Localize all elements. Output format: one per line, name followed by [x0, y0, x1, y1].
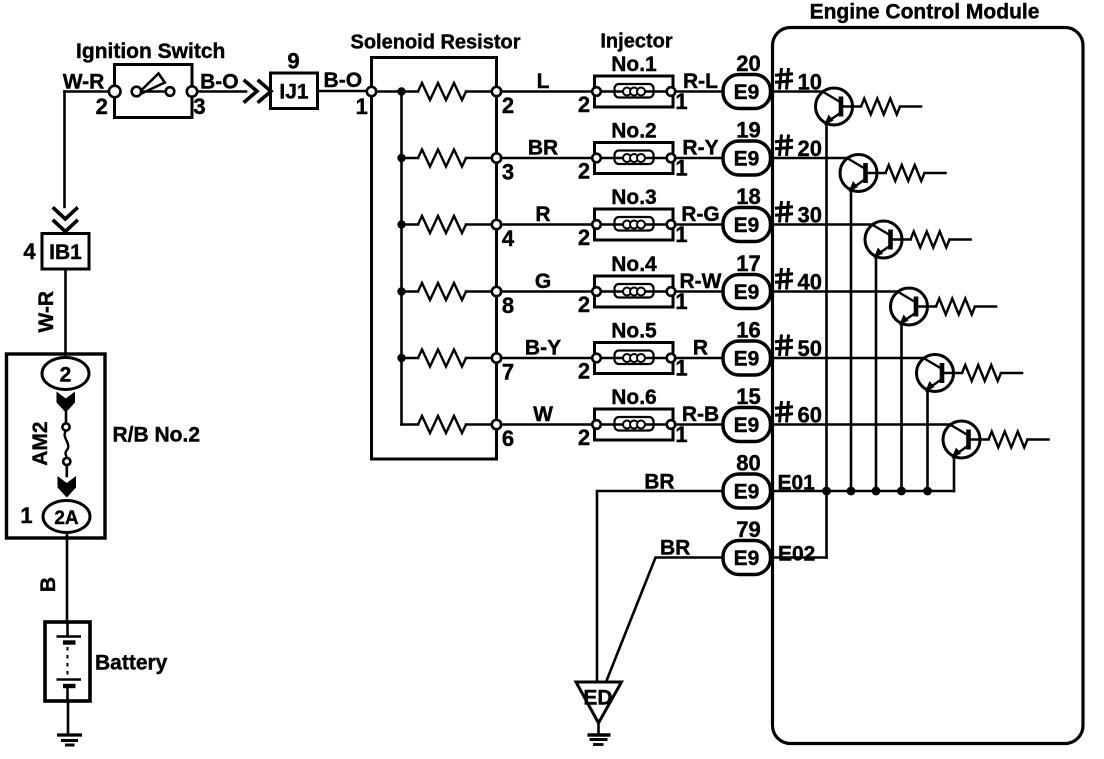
wire R-W injector to E9 — [675, 290, 723, 293]
transistor Q4 collector resistor — [916, 305, 936, 308]
injector pin 1 — [667, 354, 676, 363]
wire E9 row to transistor Q5 base — [770, 357, 924, 360]
svg-text:7: 7 — [502, 360, 514, 385]
wire E9 row to transistor Q4 base — [770, 290, 898, 293]
injector pin 2 — [592, 87, 601, 96]
fuse AM2 — [65, 413, 68, 424]
wire W solenoid to injector No.6 — [501, 423, 592, 426]
svg-text:R: R — [535, 203, 550, 226]
svg-text:R-G: R-G — [681, 203, 720, 226]
connector pin 2 oval — [42, 358, 89, 390]
wire R solenoid to injector No.3 — [501, 223, 592, 226]
svg-text:Ignition Switch: Ignition Switch — [76, 40, 225, 63]
switch terminal pin 2 — [109, 86, 121, 98]
wire R-L injector to E9 — [675, 90, 723, 93]
bus junction node row 3 — [397, 220, 405, 228]
injector pin 1 — [667, 154, 676, 163]
wire B-O IJ1 to solenoid resistor pin 1 — [318, 90, 368, 93]
svg-text:BR: BR — [528, 137, 558, 160]
svg-text:R: R — [693, 337, 708, 360]
solenoid resistor row 6 wire — [402, 423, 419, 426]
junction connector IB1 — [42, 234, 89, 270]
svg-text:No.1: No.1 — [611, 53, 657, 76]
wire E9 row to transistor Q6 base — [770, 423, 950, 426]
junction connector IJ1 — [271, 73, 318, 109]
svg-text:No.4: No.4 — [611, 253, 657, 276]
solenoid resistor pin 1 — [367, 87, 376, 96]
wire E9 row to transistor Q2 base — [770, 157, 847, 160]
svg-text:Engine Control Module: Engine Control Module — [810, 1, 1040, 24]
solenoid resistor row 4 wire — [402, 290, 419, 293]
wire E9 row to transistor Q1 base — [770, 90, 823, 93]
wire battery to ground — [67, 701, 70, 734]
svg-text:B: B — [37, 577, 60, 592]
svg-text:E9: E9 — [734, 348, 760, 371]
ignition switch body — [115, 65, 193, 118]
bus wire — [400, 92, 403, 425]
svg-text:60: 60 — [798, 403, 822, 428]
svg-text:W-R: W-R — [63, 71, 105, 94]
wire BR E9-80 to ground — [597, 491, 723, 681]
transistor Q3 collector resistor — [891, 238, 911, 241]
injector coil — [623, 421, 631, 429]
svg-text:E02: E02 — [778, 543, 815, 566]
ground ED triangle — [576, 682, 622, 723]
svg-text:20: 20 — [798, 136, 822, 161]
solenoid resistor pin 8 — [492, 287, 501, 296]
thick arrow up-stream — [57, 392, 76, 413]
transistor Q5 — [917, 355, 954, 392]
svg-text:E9: E9 — [734, 81, 760, 104]
wire between contacts — [141, 90, 166, 93]
injector coil — [623, 288, 631, 296]
svg-text:No.2: No.2 — [611, 120, 657, 143]
svg-text:4: 4 — [23, 239, 36, 264]
svg-text:B-Y: B-Y — [525, 337, 561, 360]
connector E9 pin 19 — [723, 141, 771, 175]
svg-text:2: 2 — [578, 359, 590, 384]
svg-text:E9: E9 — [734, 148, 760, 171]
connector E9 pin 20 — [723, 75, 771, 109]
svg-text:E9: E9 — [734, 214, 760, 237]
switch inner contact right — [166, 87, 175, 96]
wire R-B injector to E9 — [675, 423, 723, 426]
ground — [597, 723, 600, 734]
bus junction node row 4 — [397, 287, 405, 295]
wire R-Y injector to E9 — [675, 157, 723, 160]
svg-text:E9: E9 — [734, 414, 760, 437]
svg-text:50: 50 — [798, 336, 822, 361]
svg-text:1: 1 — [20, 503, 32, 528]
svg-text:40: 40 — [798, 270, 822, 295]
svg-text:8: 8 — [502, 293, 514, 318]
E01 bus junction node — [847, 487, 856, 496]
svg-text:R/B No.2: R/B No.2 — [113, 424, 201, 447]
E01 bus junction node — [872, 487, 881, 496]
injector pin 1 — [667, 420, 676, 429]
connector E9 pin 16 — [723, 341, 771, 375]
injector pin 1 — [667, 287, 676, 296]
wire E9 row to transistor Q3 base — [770, 223, 872, 226]
svg-text:ED: ED — [583, 687, 612, 710]
svg-text:Solenoid Resistor: Solenoid Resistor — [350, 32, 520, 54]
label #30 — [775, 201, 793, 223]
wire B-Y solenoid to injector No.5 — [501, 357, 592, 360]
transistor Q3 — [865, 221, 902, 258]
solenoid resistor row 1 wire — [372, 90, 419, 93]
svg-text:2: 2 — [96, 94, 108, 119]
bus junction node row 5 — [397, 354, 405, 362]
wire BR solenoid to injector No.2 — [501, 157, 592, 160]
svg-text:W-R: W-R — [35, 291, 58, 333]
svg-text:IB1: IB1 — [49, 241, 82, 264]
svg-text:17: 17 — [736, 251, 760, 276]
label #20 — [775, 135, 793, 157]
svg-text:BR: BR — [644, 471, 674, 494]
svg-text:10: 10 — [798, 70, 822, 95]
transistor Q6 collector resistor — [969, 438, 989, 441]
svg-text:30: 30 — [798, 203, 822, 228]
svg-text:2: 2 — [578, 92, 590, 117]
svg-text:R-W: R-W — [680, 270, 722, 293]
svg-text:18: 18 — [736, 184, 760, 209]
ground — [57, 733, 82, 736]
connector arrows vv — [54, 209, 77, 220]
solenoid resistor pin 2 — [492, 87, 501, 96]
svg-text:3: 3 — [193, 94, 205, 119]
wire Q1 emitter to E01 bus — [825, 123, 828, 492]
svg-text:2A: 2A — [54, 508, 79, 529]
connector E9 pin 15 — [723, 408, 771, 442]
solenoid resistor box — [372, 58, 497, 460]
label #10 — [775, 68, 793, 90]
connector E9 pin 79 — [723, 541, 771, 575]
resistor row 6 — [418, 416, 466, 433]
svg-text:AM2: AM2 — [29, 421, 52, 465]
injector coil — [623, 354, 631, 362]
svg-text:BR: BR — [660, 537, 690, 560]
connector pin 2A oval — [43, 501, 90, 533]
wire R injector to E9 — [675, 357, 723, 360]
wire W-R from node to switch pin 2 — [65, 90, 110, 93]
relay block R/B No.2 box — [7, 354, 106, 538]
svg-text:W: W — [533, 403, 553, 426]
thick arrow down-stream — [58, 476, 77, 498]
E01 bus junction node — [897, 487, 906, 496]
svg-text:L: L — [537, 70, 550, 93]
resistor row 1 — [418, 83, 466, 100]
solenoid resistor pin 7 — [492, 353, 501, 362]
solenoid resistor pin 3 — [492, 153, 501, 162]
wire W-R vertical drop — [63, 92, 66, 208]
solenoid resistor row 5 wire — [402, 357, 419, 360]
transistor Q2 collector resistor — [866, 172, 886, 175]
svg-text:79: 79 — [736, 517, 760, 542]
injector pin 1 — [667, 220, 676, 229]
transistor Q1 — [816, 88, 853, 125]
wire G solenoid to injector No.4 — [501, 290, 592, 293]
svg-text:2: 2 — [578, 425, 590, 450]
connector E9 pin 80 — [723, 474, 771, 508]
svg-text:6: 6 — [502, 426, 514, 451]
wire Q3 emitter to E01 bus — [875, 256, 878, 492]
transistor Q6 — [943, 421, 980, 458]
svg-text:4: 4 — [502, 226, 515, 251]
injector pin 2 — [592, 154, 601, 163]
svg-text:1: 1 — [356, 94, 368, 119]
wire L solenoid to injector No.1 — [501, 90, 592, 93]
svg-text:2: 2 — [578, 225, 590, 250]
svg-text:2: 2 — [578, 159, 590, 184]
svg-text:R-B: R-B — [682, 403, 719, 426]
transistor Q5 collector resistor — [942, 372, 962, 375]
svg-text:R-Y: R-Y — [682, 137, 718, 160]
transistor Q4 — [891, 288, 928, 325]
switch terminal pin 3 — [187, 86, 197, 96]
resistor row 3 — [418, 216, 466, 233]
E01 bus junction node — [822, 487, 831, 496]
wire E02 row — [772, 556, 827, 559]
wire Q2 emitter to E01 bus — [850, 189, 853, 491]
svg-text:G: G — [535, 270, 551, 293]
svg-text:No.6: No.6 — [611, 386, 657, 409]
svg-text:2: 2 — [578, 292, 590, 317]
E01 bus wire — [772, 490, 954, 493]
wire B R/B to battery — [66, 533, 69, 623]
svg-text:20: 20 — [736, 51, 760, 76]
svg-text:E9: E9 — [734, 281, 760, 304]
svg-text:80: 80 — [736, 451, 760, 476]
wire Q4 emitter to E01 bus — [900, 323, 903, 492]
svg-text:Battery: Battery — [95, 652, 168, 675]
injector coil — [623, 154, 631, 162]
injector pin 2 — [592, 420, 601, 429]
engine control module box — [773, 28, 1084, 744]
solenoid resistor row 2 wire — [402, 157, 419, 160]
wire W-R IB1 to R/B No.2 — [64, 269, 67, 358]
label #60 — [775, 401, 793, 423]
svg-text:E01: E01 — [778, 472, 816, 495]
connector arrows >> — [245, 81, 257, 102]
wire E02 riser to E01 bus — [825, 491, 828, 558]
svg-text:15: 15 — [736, 384, 760, 409]
label #50 — [775, 335, 793, 357]
svg-text:B-O: B-O — [324, 69, 363, 92]
connector E9 pin 17 — [723, 275, 771, 309]
svg-text:No.3: No.3 — [611, 186, 657, 209]
svg-text:2: 2 — [502, 93, 514, 118]
label #40 — [775, 268, 793, 290]
svg-text:E9: E9 — [734, 481, 760, 504]
transistor Q2 — [840, 155, 877, 192]
svg-text:E9: E9 — [734, 547, 760, 570]
resistor row 4 — [418, 283, 466, 300]
svg-text:9: 9 — [287, 49, 299, 74]
svg-text:IJ1: IJ1 — [279, 81, 309, 104]
resistor row 5 — [418, 350, 466, 367]
battery — [45, 622, 90, 701]
injector coil — [623, 88, 631, 96]
injector coil — [623, 221, 631, 229]
wire R-G injector to E9 — [675, 223, 723, 226]
connector E9 pin 18 — [723, 208, 771, 242]
injector pin 2 — [592, 354, 601, 363]
solenoid resistor row 3 wire — [402, 223, 419, 226]
svg-text:Injector: Injector — [600, 31, 672, 53]
transistor Q1 collector resistor — [841, 105, 861, 108]
switch lever — [139, 74, 165, 94]
svg-text:R-L: R-L — [683, 70, 718, 93]
wire BR E9-79 to ground — [606, 558, 723, 683]
solenoid resistor pin 4 — [492, 220, 501, 229]
svg-text:2: 2 — [60, 364, 72, 387]
svg-text:3: 3 — [502, 160, 514, 185]
switch inner contact left — [132, 87, 142, 97]
svg-text:B-O: B-O — [200, 71, 239, 94]
solenoid resistor pin 6 — [492, 420, 501, 429]
wire B-O switch to IJ1 — [198, 90, 247, 93]
injector pin 2 — [592, 220, 601, 229]
bus junction node row 1 — [397, 87, 405, 95]
svg-text:19: 19 — [736, 118, 760, 143]
injector pin 1 — [667, 87, 676, 96]
injector pin 2 — [592, 287, 601, 296]
wire Q6 emitter to E01 bus — [953, 456, 956, 492]
E01 bus junction node — [923, 487, 932, 496]
svg-text:16: 16 — [736, 318, 760, 343]
resistor row 2 — [418, 150, 466, 167]
wire Q5 emitter to E01 bus — [926, 389, 929, 491]
svg-text:No.5: No.5 — [611, 320, 657, 343]
bus junction node row 2 — [397, 154, 405, 162]
